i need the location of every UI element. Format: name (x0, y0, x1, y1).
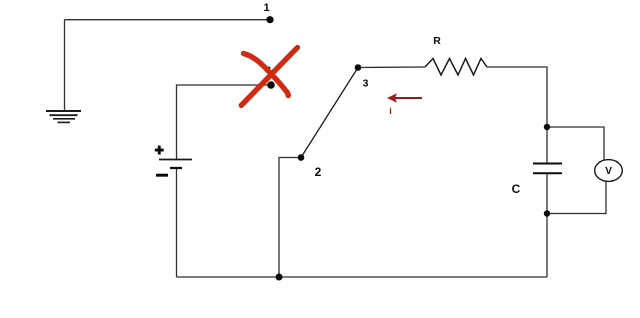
capacitor C top plate (533, 163, 562, 165)
wire battery positive to crossed contact (177, 85, 272, 159)
wire voltmeter branch top (547, 127, 604, 160)
red X cross-out stroke (backslash with hooks) (244, 54, 289, 96)
resistor R zigzag body (425, 59, 487, 76)
wire resistor to right corner and down to top cap node (487, 67, 547, 127)
wire switch arm node 2 to node 3 (301, 68, 358, 158)
wire top rail to node 1 (65, 19, 271, 21)
node 1 dot (266, 16, 273, 23)
stray contact dot above crossed node (268, 67, 271, 70)
wire top cap node down to capacitor (546, 127, 548, 163)
node at crossed switch contact (267, 81, 275, 89)
wire voltmeter branch bottom (547, 182, 606, 214)
node bottom of capacitor branch (544, 210, 550, 216)
wire bottom rail (177, 276, 548, 278)
svg-text:3: 3 (363, 78, 369, 90)
battery B1 short plate (-) (170, 167, 182, 169)
red X cross-out stroke (slash) (241, 48, 297, 106)
node 2 dot (298, 154, 305, 161)
battery plus sign (155, 146, 164, 155)
wire junction up to node 2 (279, 158, 301, 278)
wire battery negative down to bottom rail (176, 168, 178, 277)
capacitor C bottom plate (533, 172, 562, 174)
svg-text:R: R (433, 35, 441, 47)
svg-text:C: C (512, 182, 521, 196)
svg-text:i: i (389, 106, 392, 117)
current arrow i shaft (393, 97, 422, 99)
node junction on bottom rail (276, 274, 283, 281)
wire node 3 to resistor (358, 66, 425, 69)
svg-text:1: 1 (263, 2, 269, 14)
battery minus sign (156, 174, 168, 177)
node 3 dot (355, 64, 362, 71)
battery B1 long plate (+) (159, 159, 192, 161)
svg-text:V: V (605, 166, 612, 177)
wire capacitor to bottom cap node and down to bottom rail (546, 174, 548, 277)
svg-text:2: 2 (315, 165, 322, 179)
wire top-left vertical from ground to top rail (64, 20, 66, 111)
current arrow i head (387, 93, 397, 103)
ground (46, 111, 81, 122)
node top of capacitor branch (544, 124, 550, 130)
voltmeter V body (595, 160, 623, 182)
